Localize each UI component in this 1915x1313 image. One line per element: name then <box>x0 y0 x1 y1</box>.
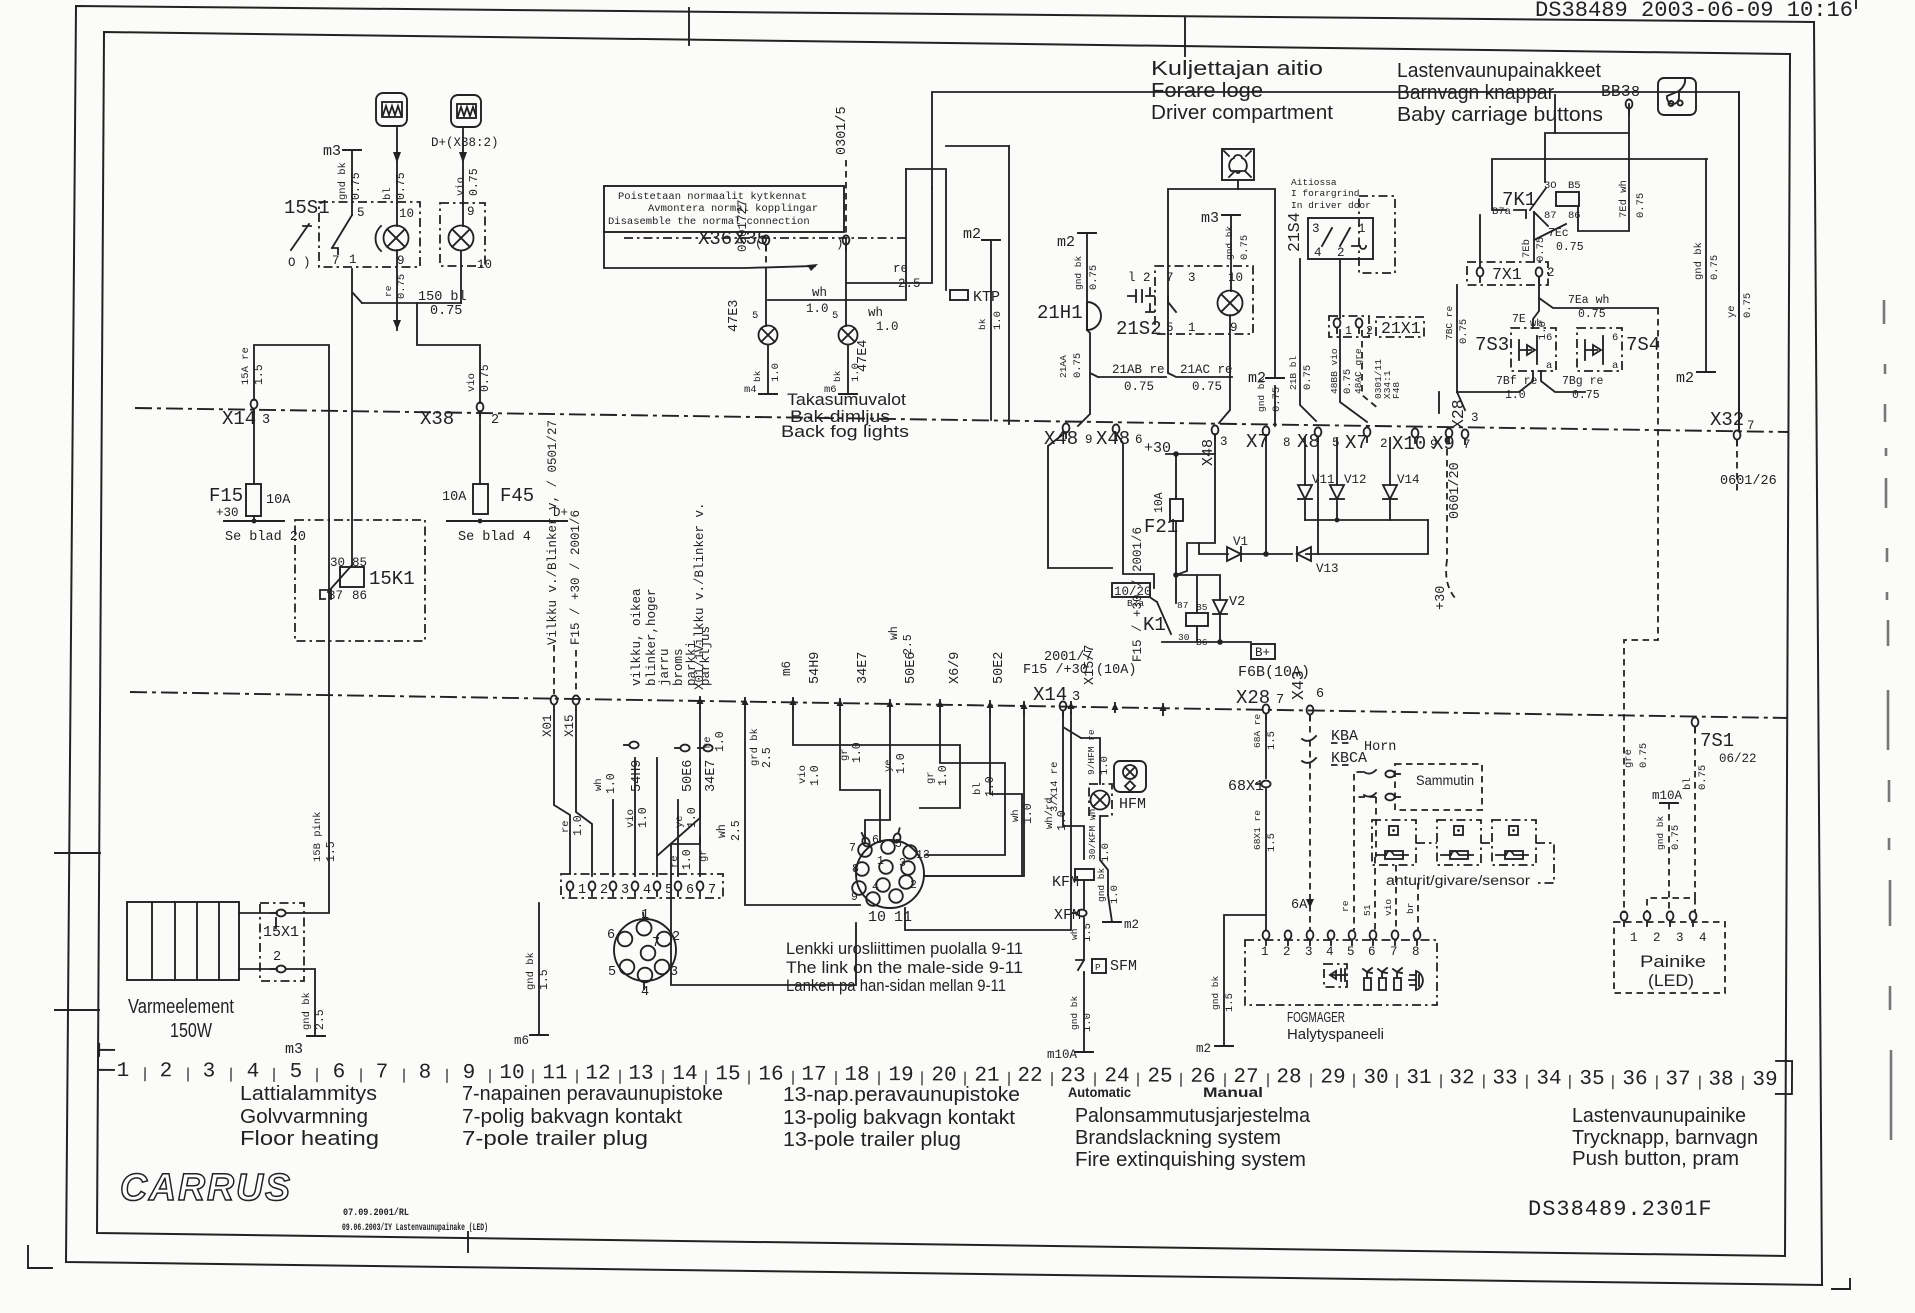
svg-text:37: 37 <box>1665 1068 1690 1091</box>
svg-text:7: 7 <box>1166 271 1174 285</box>
ruler scale group <box>98 1044 1792 1094</box>
svg-text:10: 10 <box>477 258 492 272</box>
svg-text:V13: V13 <box>1316 562 1339 576</box>
svg-text:36: 36 <box>1622 1068 1647 1091</box>
border tick top 1 <box>688 8 690 45</box>
HFM icon box <box>1114 761 1146 792</box>
wire re 2.5 <box>846 188 932 283</box>
heater icon 1 <box>376 93 407 126</box>
svg-text:1.5: 1.5 <box>253 364 266 385</box>
svg-text:|: | <box>1047 1071 1056 1088</box>
svg-text:X9: X9 <box>1432 433 1455 455</box>
svg-text:DS38489 2003-06-09 10:16: DS38489 2003-06-09 10:16 <box>1535 0 1853 23</box>
net tag 54H9 <box>624 742 639 749</box>
svg-text:0.75: 0.75 <box>1072 353 1084 378</box>
lamp box 2 (X38 lamp) dash-dot <box>440 203 485 266</box>
svg-text:13-pole trailer plug: 13-pole trailer plug <box>783 1129 961 1151</box>
svg-text:Lenkki urosliittimen puolalla: Lenkki urosliittimen puolalla 9-11 <box>786 940 1023 958</box>
wire X36 pin down to lamp 47E3 <box>765 245 767 268</box>
svg-text:2: 2 <box>910 879 917 892</box>
wire bell to rail <box>1237 180 1239 189</box>
svg-text:gnd bk: gnd bk <box>1693 242 1705 280</box>
svg-text:XFM: XFM <box>1054 907 1081 924</box>
svg-text:3: 3 <box>1220 435 1228 449</box>
svg-text:1.0: 1.0 <box>770 363 782 382</box>
svg-text:bk: bk <box>752 370 763 382</box>
KTP connector <box>906 169 946 290</box>
svg-text:KTP: KTP <box>973 289 1000 306</box>
diode V2 <box>1213 600 1227 614</box>
svg-text:Barnvagn knappar: Barnvagn knappar <box>1397 82 1554 104</box>
wire 21S4 pin2 to 21X1 <box>1339 259 1341 318</box>
connector 7X1 <box>1467 262 1548 285</box>
svg-text:7: 7 <box>1747 419 1755 433</box>
svg-text:m2: m2 <box>1676 370 1694 387</box>
panel bottle icons <box>1363 968 1402 990</box>
svg-text:0.75: 0.75 <box>350 172 363 200</box>
svg-text:6: 6 <box>872 834 879 847</box>
bus1 node X48:9 <box>1063 423 1070 438</box>
buzzer 21H1 <box>1087 302 1101 330</box>
diode V13 <box>1317 437 1319 554</box>
svg-text:Disasemble the normal connecti: Disasemble the normal connection <box>608 216 810 228</box>
svg-text:85: 85 <box>352 556 367 570</box>
sensor box 3 <box>1492 820 1536 865</box>
svg-text:Poistetaan normaalit kytkennat: Poistetaan normaalit kytkennat <box>618 191 807 203</box>
svg-text:1.0: 1.0 <box>937 765 950 786</box>
K1 coil <box>1186 613 1208 626</box>
bottom rail to B+ <box>1162 626 1251 642</box>
svg-text:0.75: 0.75 <box>1638 743 1650 768</box>
svg-text:4: 4 <box>1699 931 1707 945</box>
wire 15S1 pin1 jog to long feed <box>352 269 362 565</box>
svg-text:9: 9 <box>463 1062 476 1085</box>
bus1 node X48:3 <box>1212 425 1219 440</box>
wire gnd bk right <box>1705 159 1707 371</box>
svg-text:|: | <box>356 1067 365 1084</box>
svg-text:1.5: 1.5 <box>1266 731 1278 750</box>
svg-text:87: 87 <box>1177 600 1188 611</box>
svg-text:7: 7 <box>708 883 716 898</box>
svg-text:15K1: 15K1 <box>369 568 415 590</box>
svg-text:Aitiossa: Aitiossa <box>1291 177 1337 188</box>
svg-text:3: 3 <box>1305 945 1313 959</box>
bus1 node X9:7 <box>1446 428 1453 443</box>
svg-text:0.75: 0.75 <box>1572 389 1600 402</box>
top feed line y92 <box>932 92 1739 431</box>
heating element Varmeelement box <box>127 902 239 980</box>
+30 rail under F15 <box>224 520 284 522</box>
svg-text:gnd bk: gnd bk <box>1224 225 1235 260</box>
wire 68X1 re down <box>1265 789 1267 930</box>
svg-text:1.0: 1.0 <box>992 311 1004 330</box>
svg-text:BB3: BB3 <box>1601 82 1631 101</box>
join line under diodes <box>1305 519 1428 521</box>
fuse F45 <box>473 484 488 514</box>
dashed stubs above X01 X15 <box>553 645 555 694</box>
ground m3 bottom left <box>307 1035 325 1037</box>
relay K1 10/20 box <box>1112 583 1150 597</box>
svg-text:Halytyspaneeli: Halytyspaneeli <box>1287 1026 1384 1043</box>
wire 7E wh to 7S3 <box>1533 298 1539 328</box>
wire gnd bk 2.5 from 15X1:2 <box>286 969 315 1036</box>
wire 48BB vio <box>1340 330 1367 422</box>
svg-text:Driver compartment: Driver compartment <box>1151 102 1333 124</box>
wire X48:6 step <box>1116 433 1154 588</box>
svg-text:3: 3 <box>1072 690 1080 705</box>
ground m2 of 21H1 <box>1078 232 1096 234</box>
svg-text:3: 3 <box>262 413 270 428</box>
15X1 pins <box>271 910 286 917</box>
drop from L1 to L2 <box>1554 95 1556 133</box>
7-pin strip pins and numbers <box>567 881 574 896</box>
svg-text:7S4: 7S4 <box>1626 334 1660 356</box>
scanner edge streak <box>1884 300 1891 1140</box>
svg-text:vio: vio <box>797 765 809 784</box>
svg-text:4: 4 <box>1314 246 1322 260</box>
node 7S1 on bus2 <box>1692 717 1699 732</box>
svg-text:Palonsammutusjarjestelma: Palonsammutusjarjestelma <box>1075 1105 1311 1127</box>
svg-text:7Bf re: 7Bf re <box>1496 375 1538 388</box>
svg-text:2: 2 <box>600 883 608 898</box>
svg-text:2: 2 <box>160 1060 173 1083</box>
ruler left bracket <box>98 1044 114 1070</box>
wire m2 branch gnd bk 1.5 <box>1224 915 1266 1046</box>
svg-text:0.75: 0.75 <box>1302 365 1314 390</box>
ground m3 of 21S2 <box>1222 214 1240 216</box>
svg-text:gnd bk: gnd bk <box>1655 815 1666 850</box>
wire 7Eb 7Ec from contact <box>1533 212 1535 262</box>
svg-text:Automatic: Automatic <box>1068 1085 1131 1100</box>
svg-text:m2: m2 <box>1057 234 1075 251</box>
svg-text:|: | <box>1436 1073 1445 1090</box>
wire gnd bk 1.5 to m6 <box>538 903 540 1035</box>
panel lamp icon <box>1409 971 1423 990</box>
svg-text:10: 10 <box>868 909 886 926</box>
svg-text:9: 9 <box>851 891 858 904</box>
svg-text:21X1: 21X1 <box>1381 319 1421 338</box>
svg-text:bk: bk <box>832 370 843 382</box>
sensor box 1 <box>1372 820 1416 865</box>
svg-text:wh: wh <box>593 778 605 791</box>
svg-text:15B pink: 15B pink <box>312 812 324 862</box>
svg-text:|: | <box>442 1068 451 1085</box>
svg-text:35: 35 <box>1579 1068 1604 1091</box>
switch 21S2 dash-dot box <box>1155 266 1253 334</box>
svg-text:1.0: 1.0 <box>637 807 650 828</box>
dashed gre wire from 7Ea to Painike <box>1624 308 1658 913</box>
svg-text:1.0: 1.0 <box>605 773 618 794</box>
svg-text:0.75: 0.75 <box>1556 241 1584 254</box>
wire 21AB <box>1098 334 1232 377</box>
svg-text:68X1: 68X1 <box>1228 778 1264 795</box>
svg-text:7-pole trailer plug: 7-pole trailer plug <box>462 1128 648 1150</box>
svg-text:1: 1 <box>1630 931 1638 945</box>
wire 68A re to 68X1 <box>1265 714 1267 778</box>
button 7S4 <box>1577 328 1622 371</box>
pram icon box <box>1658 78 1696 115</box>
bus2 node X14:3 <box>1060 701 1067 716</box>
svg-text:3/X14 re: 3/X14 re <box>1049 762 1061 812</box>
svg-text:B7a: B7a <box>1127 598 1144 609</box>
svg-text:|: | <box>399 1067 408 1084</box>
svg-text:3: 3 <box>1471 411 1479 425</box>
wire X48:9 into 10/20 <box>1048 432 1112 568</box>
dashed links sammutin to pins <box>1354 772 1376 930</box>
svg-text:Vilkku v./Blinker v, / 0501/27: Vilkku v./Blinker v, / 0501/27 <box>546 420 560 645</box>
cascade wire w6 <box>925 711 1005 855</box>
svg-text:1: 1 <box>578 883 586 898</box>
svg-text:Manual: Manual <box>1203 1085 1263 1100</box>
svg-text:gnd bk: gnd bk <box>1069 995 1080 1030</box>
svg-text:8: 8 <box>419 1062 432 1085</box>
svg-text:13-polig bakvagn kontakt: 13-polig bakvagn kontakt <box>783 1107 1015 1129</box>
svg-text:|: | <box>1306 1072 1315 1089</box>
svg-text:4: 4 <box>641 985 649 1000</box>
svg-text:Brandslackning system: Brandslackning system <box>1075 1127 1281 1149</box>
svg-text:54H9: 54H9 <box>630 760 645 792</box>
svg-text:|: | <box>140 1066 149 1083</box>
fuse F15 <box>246 484 261 516</box>
svg-text:X01/1Vilkku v./Blinker v.: X01/1Vilkku v./Blinker v. <box>693 502 707 690</box>
svg-text:10A: 10A <box>442 490 467 505</box>
svg-text:7S3: 7S3 <box>1475 334 1509 356</box>
svg-text:0.75: 0.75 <box>1088 265 1100 290</box>
svg-text:br: br <box>1405 903 1416 914</box>
svg-text:V12: V12 <box>1344 473 1367 487</box>
svg-text:V2: V2 <box>1229 595 1245 610</box>
svg-text:15A re: 15A re <box>240 347 252 385</box>
svg-text:21B bl: 21B bl <box>1288 355 1299 390</box>
svg-text:7: 7 <box>376 1061 389 1084</box>
svg-text:X48: X48 <box>1096 428 1130 450</box>
svg-text:38: 38 <box>1708 1069 1733 1092</box>
net tag 34E7 <box>698 745 713 752</box>
svg-text:Sammutin: Sammutin <box>1416 773 1474 788</box>
svg-text:50E6: 50E6 <box>904 652 919 684</box>
svg-text:5: 5 <box>1347 945 1355 959</box>
svg-text:150W: 150W <box>170 1020 212 1042</box>
svg-text:0.75: 0.75 <box>1670 825 1682 850</box>
svg-text:1: 1 <box>877 855 884 868</box>
svg-text:5: 5 <box>357 206 365 220</box>
svg-text:+30: +30 <box>216 506 239 520</box>
svg-text:F45: F45 <box>500 485 534 507</box>
svg-text:5: 5 <box>1166 321 1174 335</box>
svg-text:1.0: 1.0 <box>1109 885 1121 904</box>
lamp 2 <box>449 226 474 251</box>
svg-text:|: | <box>1263 1072 1272 1089</box>
wire gnd bk 0.75 into 15S1 pin5 <box>351 150 353 215</box>
dashed 6A wire down to panel <box>1309 740 1311 930</box>
svg-text:Se blad 20: Se blad 20 <box>225 530 306 545</box>
svg-text:|: | <box>1133 1071 1142 1088</box>
svg-text:ye: ye <box>674 815 686 828</box>
svg-text:7: 7 <box>849 842 856 855</box>
svg-text:7-napainen peravaunupistoke: 7-napainen peravaunupistoke <box>462 1083 723 1105</box>
svg-text:1.0: 1.0 <box>876 320 899 334</box>
15S1 switch arm <box>291 215 352 254</box>
border tick left 2 <box>55 1009 99 1011</box>
text box Poistetaan normaalit <box>604 186 844 232</box>
svg-text:7E: 7E <box>1512 313 1526 326</box>
border tick bottom <box>467 1232 469 1252</box>
svg-text:9: 9 <box>467 205 475 219</box>
svg-text:gnd bk: gnd bk <box>337 162 349 200</box>
wire 30/KFM wh <box>1100 816 1108 895</box>
svg-text:F15: F15 <box>209 485 243 507</box>
svg-text:(: ( <box>755 237 763 251</box>
svg-text:wh: wh <box>812 286 827 300</box>
svg-text:wh: wh <box>1069 929 1080 940</box>
node X01 on bus2 <box>551 695 558 710</box>
header tick <box>1855 0 1857 8</box>
svg-text:21H1: 21H1 <box>1037 302 1083 324</box>
svg-text:06/22: 06/22 <box>1719 752 1757 766</box>
svg-text:0.75: 0.75 <box>395 172 408 200</box>
svg-text:10: 10 <box>399 207 414 221</box>
svg-text:87: 87 <box>1544 210 1557 222</box>
wire ye 0.75 lamp1 down <box>396 250 398 330</box>
svg-text:39: 39 <box>1752 1069 1777 1092</box>
svg-text:HFM: HFM <box>1119 796 1146 813</box>
svg-text:1: 1 <box>1358 222 1366 236</box>
button 7S3 <box>1511 328 1556 371</box>
svg-text:0601/26: 0601/26 <box>1720 474 1777 489</box>
wire X48:3 step down to K1 node <box>1176 434 1215 575</box>
bus1 node X7:8 <box>1263 426 1270 441</box>
svg-text:SFM: SFM <box>1110 958 1137 975</box>
svg-text:Lastenvaunupainike: Lastenvaunupainike <box>1572 1105 1746 1127</box>
svg-text:1: 1 <box>1261 945 1269 959</box>
D+ rail under F45 <box>447 520 567 522</box>
svg-text:bk: bk <box>977 318 988 330</box>
svg-text:6: 6 <box>333 1061 346 1084</box>
svg-text:34E7: 34E7 <box>856 652 871 684</box>
svg-text:V1: V1 <box>1233 535 1248 549</box>
svg-text:2.5: 2.5 <box>898 277 921 291</box>
wires 7Bf 7Bg to X28:3 <box>1439 371 1585 413</box>
svg-text:7: 7 <box>1390 945 1398 959</box>
svg-text:m2: m2 <box>1196 1042 1211 1056</box>
svg-text:1: 1 <box>117 1060 130 1083</box>
bus1 node X32:7 <box>1734 430 1741 445</box>
lamp 47E4 <box>839 326 858 345</box>
wires heater to 15X1 <box>239 912 277 914</box>
svg-text:F48: F48 <box>1391 382 1402 399</box>
svg-text:1.0: 1.0 <box>1100 843 1112 862</box>
svg-text:vio: vio <box>455 177 467 196</box>
svg-text:0.75: 0.75 <box>1239 235 1251 260</box>
svg-text:2: 2 <box>1337 246 1345 260</box>
svg-text:13: 13 <box>916 849 930 862</box>
svg-text:3: 3 <box>1188 271 1196 285</box>
svg-text:1.5: 1.5 <box>325 841 338 862</box>
svg-text:21AC re: 21AC re <box>1180 363 1233 377</box>
svg-text:10/20: 10/20 <box>1114 585 1152 599</box>
svg-text:0.75: 0.75 <box>1124 380 1154 394</box>
svg-text:grd bk: grd bk <box>749 728 761 766</box>
svg-text:7: 7 <box>652 936 660 951</box>
connector X14:3 on bus1 <box>251 399 258 414</box>
ground m2 of HFM <box>1103 921 1121 923</box>
svg-text:1: 1 <box>1188 321 1196 335</box>
relay 15K1 dash-dot box <box>295 520 425 641</box>
svg-text:6: 6 <box>1135 433 1143 447</box>
svg-text:Takasumuvalot: Takasumuvalot <box>787 391 906 409</box>
svg-text:5: 5 <box>1332 436 1340 450</box>
svg-text:48AC gre: 48AC gre <box>1353 348 1364 394</box>
svg-text:7Eb: 7Eb <box>1521 239 1533 258</box>
svg-text:7: 7 <box>1276 693 1284 708</box>
svg-text:5: 5 <box>895 838 902 851</box>
round 7-pin connector <box>614 919 676 981</box>
wire wh 1.0 horizontal <box>768 169 906 300</box>
bus1 node X48:6 <box>1113 424 1120 439</box>
svg-text:5: 5 <box>752 310 758 322</box>
svg-text:The link on the male-side: The link on the male-side 9-11 <box>786 959 1023 977</box>
svg-text:2.5: 2.5 <box>314 1009 327 1030</box>
svg-text:6: 6 <box>1546 332 1552 344</box>
wire vio 0.75 heater2 to lamp9 <box>462 129 464 204</box>
svg-text:7-polig bakvagn kontakt: 7-polig bakvagn kontakt <box>462 1106 682 1128</box>
7-pin strip connector dash-dot <box>561 874 723 898</box>
svg-text:X6/9: X6/9 <box>948 652 963 684</box>
svg-text:ye: ye <box>883 759 895 772</box>
svg-text:32: 32 <box>1449 1067 1474 1090</box>
svg-text:47E3: 47E3 <box>727 300 742 332</box>
svg-text:0.75: 0.75 <box>1458 319 1470 344</box>
wire gnd bk to m10A <box>1083 973 1085 1052</box>
svg-text:X14: X14 <box>222 408 256 430</box>
svg-text:Floor heating: Floor heating <box>240 1128 379 1150</box>
svg-text:anturit/givare/sensor: anturit/givare/sensor <box>1386 873 1531 888</box>
svg-text:0.75: 0.75 <box>1535 237 1547 262</box>
sensor box 2 <box>1437 820 1481 865</box>
svg-text:30: 30 <box>1363 1067 1388 1090</box>
wire bl 0.75 from 7S1 <box>1647 727 1695 912</box>
svg-text:16: 16 <box>758 1063 783 1086</box>
K1 contact <box>1151 598 1171 634</box>
svg-text:D+(X38:2): D+(X38:2) <box>431 136 499 150</box>
svg-text:|: | <box>183 1066 192 1083</box>
svg-text:1.5: 1.5 <box>1266 833 1278 852</box>
svg-text:0.75: 0.75 <box>1271 387 1283 412</box>
wire 21B bl <box>1300 259 1316 421</box>
svg-text:O: O <box>288 256 296 270</box>
svg-text:B7a: B7a <box>1492 206 1511 218</box>
bus1 node X10:9 <box>1412 428 1419 443</box>
svg-text:gr: gr <box>925 771 937 784</box>
svg-text:|: | <box>1522 1074 1531 1091</box>
svg-text:2.5: 2.5 <box>730 820 743 841</box>
svg-text:blinker,hoger: blinker,hoger <box>645 588 659 686</box>
svg-text:gre: gre <box>1623 749 1635 768</box>
svg-text:jarru: jarru <box>658 648 672 686</box>
svg-text:6A: 6A <box>1291 898 1308 913</box>
svg-text:5: 5 <box>608 965 616 980</box>
dashed 0601/26 below X32 <box>1736 440 1738 492</box>
svg-text:7BC re: 7BC re <box>1444 305 1455 340</box>
svg-text:X43: X43 <box>1289 670 1308 700</box>
svg-text:|: | <box>226 1067 235 1084</box>
relay 15K1 contact <box>320 565 352 599</box>
svg-text:m6: m6 <box>780 661 794 676</box>
svg-text:wh: wh <box>888 626 901 640</box>
svg-text:31: 31 <box>1406 1067 1431 1090</box>
svg-text:1: 1 <box>641 908 649 923</box>
svg-text:m10A: m10A <box>1652 789 1683 803</box>
